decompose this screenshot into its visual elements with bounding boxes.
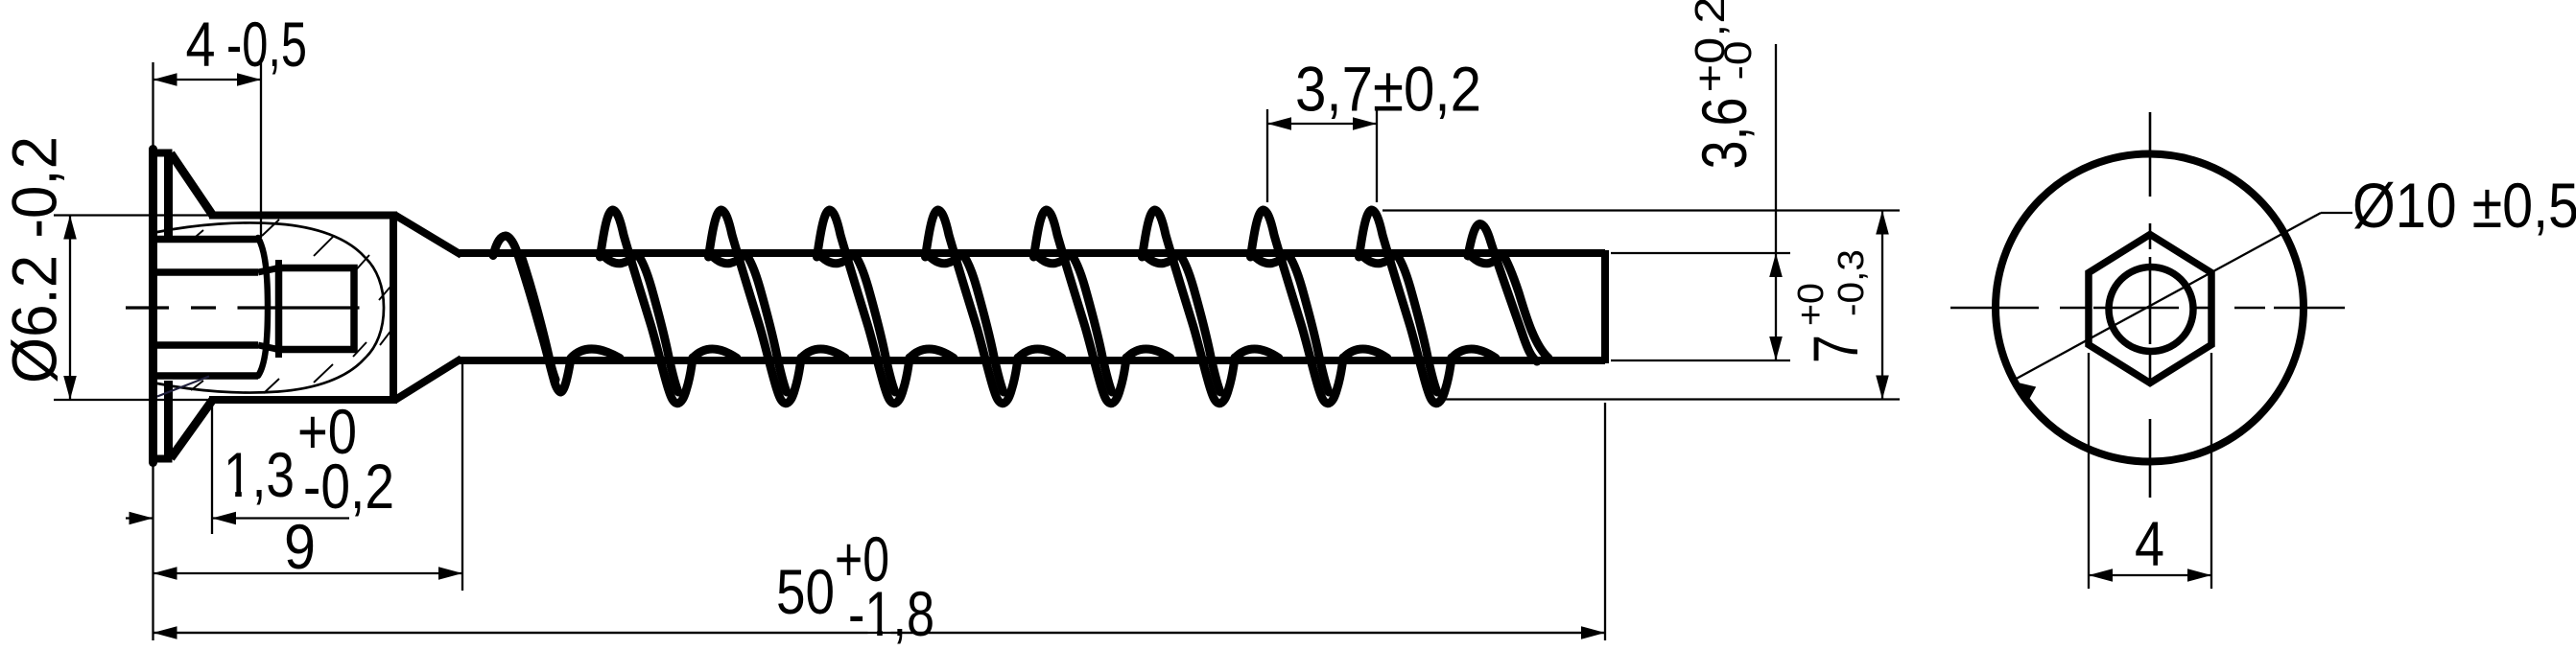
svg-text:-0,2: -0,2 — [303, 451, 394, 522]
svg-text:7: 7 — [1800, 335, 1871, 363]
svg-text:-0,5: -0,5 — [226, 9, 307, 80]
svg-text:+0: +0 — [1791, 283, 1832, 326]
svg-text:1,3: 1,3 — [224, 439, 295, 510]
svg-text:3,7±0,2: 3,7±0,2 — [1295, 54, 1481, 125]
svg-text:4: 4 — [186, 9, 216, 80]
svg-text:Ø6.2 -0,2: Ø6.2 -0,2 — [0, 136, 70, 383]
svg-text:3,6: 3,6 — [1689, 98, 1760, 170]
svg-text:-1,8: -1,8 — [848, 578, 934, 649]
svg-text:-0,3: -0,3 — [1832, 249, 1872, 316]
svg-text:9: 9 — [284, 511, 316, 582]
svg-text:-0: -0 — [1717, 41, 1760, 81]
svg-text:4: 4 — [2135, 508, 2164, 579]
svg-text:50: 50 — [776, 556, 835, 627]
svg-text:Ø10 ±0,5: Ø10 ±0,5 — [2352, 170, 2576, 241]
